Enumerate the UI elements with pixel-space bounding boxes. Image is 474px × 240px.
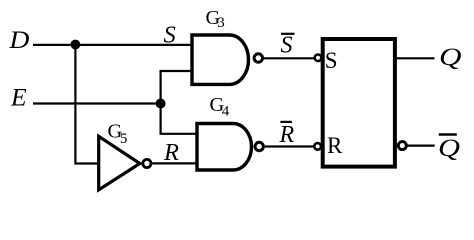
NAND gate G4 body	[197, 124, 252, 171]
NAND gate G4 output bubble	[255, 142, 263, 150]
NAND gate G3 output bubble	[254, 54, 262, 62]
svg-text:4: 4	[222, 104, 230, 120]
svg-text:E: E	[10, 83, 27, 112]
latch R input bubble	[314, 143, 321, 150]
wire: latch Q output	[397, 57, 435, 59]
node: junction on D line	[71, 40, 81, 50]
NAND gate G3 body	[192, 35, 249, 84]
svg-text:Q: Q	[439, 42, 462, 71]
inverter G5 output bubble	[143, 159, 151, 167]
latch S input bubble	[315, 55, 322, 62]
wire: E junction up to G3 bottom input	[161, 71, 192, 104]
wire: G4 output to latch R input	[265, 145, 314, 147]
wire: E junction down to G4 top input	[161, 104, 197, 134]
svg-text:R: R	[279, 122, 295, 148]
wire: E input to junction	[33, 102, 161, 104]
wire: latch Q-bar output	[408, 145, 435, 147]
svg-text:3: 3	[217, 15, 225, 31]
svg-text:5: 5	[120, 131, 128, 147]
wire: G3 output to latch S input	[263, 57, 314, 59]
SR latch box U1	[323, 39, 395, 167]
inverter G5 triangle	[99, 136, 140, 190]
svg-text:D: D	[8, 25, 30, 54]
svg-text:R: R	[327, 133, 343, 158]
svg-text:R: R	[163, 139, 179, 166]
wire: D junction down and right to G5 input	[75, 45, 98, 164]
wire: D input to G3 top input	[33, 44, 192, 46]
latch Q-bar output bubble	[398, 142, 406, 150]
svg-text:Q: Q	[438, 133, 460, 162]
node: junction on E line	[156, 99, 166, 109]
svg-text:S: S	[325, 48, 338, 73]
svg-text:S: S	[281, 33, 293, 59]
wire: G5 output to G4 bottom input	[152, 162, 197, 164]
svg-text:S: S	[164, 22, 176, 49]
